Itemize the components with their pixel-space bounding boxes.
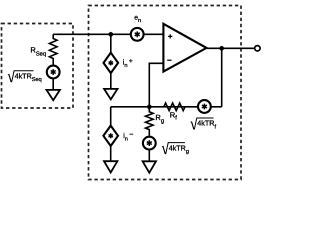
- wire: sqrt(4kTRg) to ground: [148, 150, 150, 162]
- node: + input rail junction: [109, 32, 113, 36]
- ground (in- branch): [104, 161, 117, 172]
- svg-text:in+: in+: [123, 58, 133, 69]
- wire: in- to ground: [110, 146, 112, 161]
- current noise source in- (diamond): [103, 126, 118, 146]
- resistor Rf: [164, 103, 185, 111]
- svg-text:Rf: Rf: [170, 111, 177, 122]
- wire: op-amp output: [207, 47, 255, 49]
- svg-text:4kTRf: 4kTRf: [197, 119, 216, 131]
- wire: source to ground: [52, 78, 54, 90]
- wire: feedback from output down: [221, 48, 223, 107]
- svg-text:RSeq: RSeq: [30, 46, 46, 58]
- wire: junction down to in+ source: [110, 34, 112, 53]
- current noise source in+ (diamond): [104, 53, 119, 73]
- noise source sqrt(4kTRSeq): [47, 66, 60, 79]
- wire: junction down to in- source: [110, 107, 112, 126]
- voltage noise source en: [131, 28, 144, 41]
- wire: top rail from RSeq to op-amp + input: [53, 33, 163, 35]
- node: inverting input junction: [147, 105, 151, 109]
- label sqrt(4kTRSeq): [8, 70, 42, 83]
- svg-text:Rg: Rg: [155, 113, 164, 125]
- op-amp U1: [163, 24, 206, 72]
- pin +: non-inverting input mark: [168, 34, 172, 38]
- node: output junction: [220, 46, 224, 50]
- wire: in+ to ground: [110, 73, 112, 89]
- noise source sqrt(4kTRg): [143, 137, 156, 150]
- noise source sqrt(4kTRf): [198, 100, 211, 113]
- label sqrt(4kTRg): [162, 142, 189, 155]
- svg-text:4kTRg: 4kTRg: [169, 143, 189, 155]
- wire: inverting input to feedback node: [149, 63, 163, 107]
- svg-text:4kTRSeq: 4kTRSeq: [15, 71, 42, 83]
- wire: bottom feedback rail: [111, 106, 222, 108]
- resistor RSeq: [49, 34, 57, 64]
- ground (source network): [47, 90, 60, 100]
- ground (in+ branch): [104, 89, 117, 99]
- pin -: inverting input mark: [167, 59, 171, 61]
- svg-text:in−: in−: [123, 131, 133, 142]
- dashed boundary box: source network (left): [2, 24, 74, 109]
- resistor Rg: [146, 107, 154, 136]
- label sqrt(4kTRf): [190, 118, 216, 131]
- dashed boundary box: amplifier noise model (right): [89, 6, 242, 180]
- output terminal: [255, 46, 260, 51]
- ground (Rg branch): [143, 161, 156, 172]
- svg-text:en: en: [134, 15, 141, 24]
